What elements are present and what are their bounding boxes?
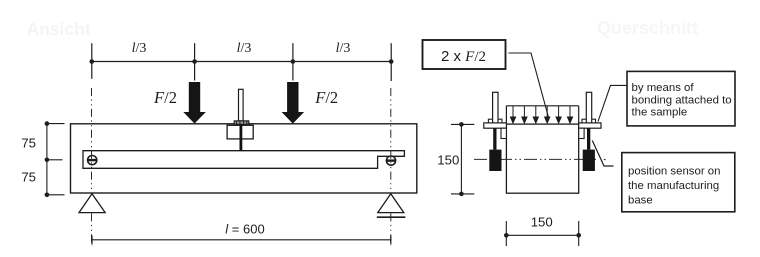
right clamp plate bbox=[579, 123, 601, 128]
distributed load arrows bbox=[510, 106, 572, 123]
left post bbox=[493, 92, 498, 123]
note box bonding bbox=[627, 71, 735, 126]
support triangle left bbox=[79, 194, 105, 213]
note box position sensor bbox=[622, 153, 735, 212]
svg-text:Querschnitt: Querschnitt bbox=[597, 18, 698, 38]
svg-text:l/3: l/3 bbox=[336, 41, 351, 56]
tick 2 bbox=[194, 43, 196, 80]
svg-text:75: 75 bbox=[21, 170, 36, 185]
svg-text:F/2: F/2 bbox=[153, 88, 177, 107]
dim dots on top line bbox=[90, 59, 394, 64]
svg-text:75: 75 bbox=[21, 136, 36, 151]
svg-text:F/2: F/2 bbox=[314, 88, 338, 107]
center clamp block bbox=[227, 125, 253, 139]
inner measuring bar bbox=[83, 151, 404, 169]
right 150 vertical dimension bbox=[451, 124, 474, 193]
load box 2 x F/2 bbox=[423, 40, 506, 69]
pivot circle right bbox=[386, 156, 395, 165]
svg-text:2 x F/2: 2 x F/2 bbox=[441, 48, 486, 65]
center rod bbox=[239, 89, 244, 121]
pivot circle left bbox=[88, 156, 97, 165]
svg-text:base: base bbox=[628, 194, 653, 206]
right collar bbox=[582, 119, 596, 123]
top dimension line l/3 spans bbox=[92, 61, 391, 63]
right sensor body bbox=[583, 150, 595, 171]
clamp stem bbox=[239, 124, 242, 151]
roller line under right support bbox=[377, 216, 406, 218]
svg-text:l/3: l/3 bbox=[237, 41, 252, 56]
svg-text:150: 150 bbox=[531, 214, 553, 229]
force arrow left F/2 bbox=[183, 82, 206, 124]
svg-text:by means of: by means of bbox=[632, 82, 695, 94]
bottom dimension l = 600 bbox=[92, 236, 391, 245]
centerline right support bbox=[390, 88, 392, 246]
right step block bbox=[579, 128, 584, 138]
horizontal centerline bbox=[474, 158, 597, 160]
svg-text:the manufacturing: the manufacturing bbox=[628, 180, 719, 192]
svg-text:bonding attached to: bonding attached to bbox=[632, 94, 732, 106]
right sensor rod bbox=[587, 128, 590, 149]
svg-text:position sensor on: position sensor on bbox=[628, 166, 720, 178]
left clamp plate bbox=[484, 123, 507, 128]
distributed load left side bbox=[505, 106, 507, 124]
centerline left support bbox=[91, 88, 93, 246]
leader to position sensor note bbox=[592, 141, 613, 167]
svg-text:l = 600: l = 600 bbox=[225, 221, 264, 236]
bottom 150 dimension bbox=[506, 221, 578, 246]
left sensor rod bbox=[493, 128, 496, 149]
distributed load right side bbox=[578, 106, 580, 124]
svg-text:Ansicht: Ansicht bbox=[27, 19, 91, 39]
svg-text:l/3: l/3 bbox=[132, 41, 147, 56]
tick 4 bbox=[390, 43, 392, 81]
svg-text:150: 150 bbox=[437, 153, 459, 168]
distributed load top line bbox=[506, 105, 578, 107]
force arrow right F/2 bbox=[282, 82, 305, 124]
leader to bonding note bbox=[598, 85, 627, 121]
left sensor body bbox=[489, 150, 501, 171]
svg-text:the sample: the sample bbox=[632, 107, 688, 119]
right post bbox=[586, 92, 591, 123]
beam (sample side view) bbox=[71, 124, 417, 193]
tick 1 bbox=[91, 43, 93, 79]
left step block bbox=[501, 128, 506, 138]
left 75/75 dimension line bbox=[47, 124, 65, 195]
support triangle right bbox=[378, 194, 404, 213]
left collar bbox=[488, 119, 502, 123]
rod base nut bbox=[234, 121, 249, 124]
sample cross-section square bbox=[506, 124, 578, 193]
leader from load box bbox=[509, 53, 549, 119]
tick 3 bbox=[292, 43, 294, 80]
